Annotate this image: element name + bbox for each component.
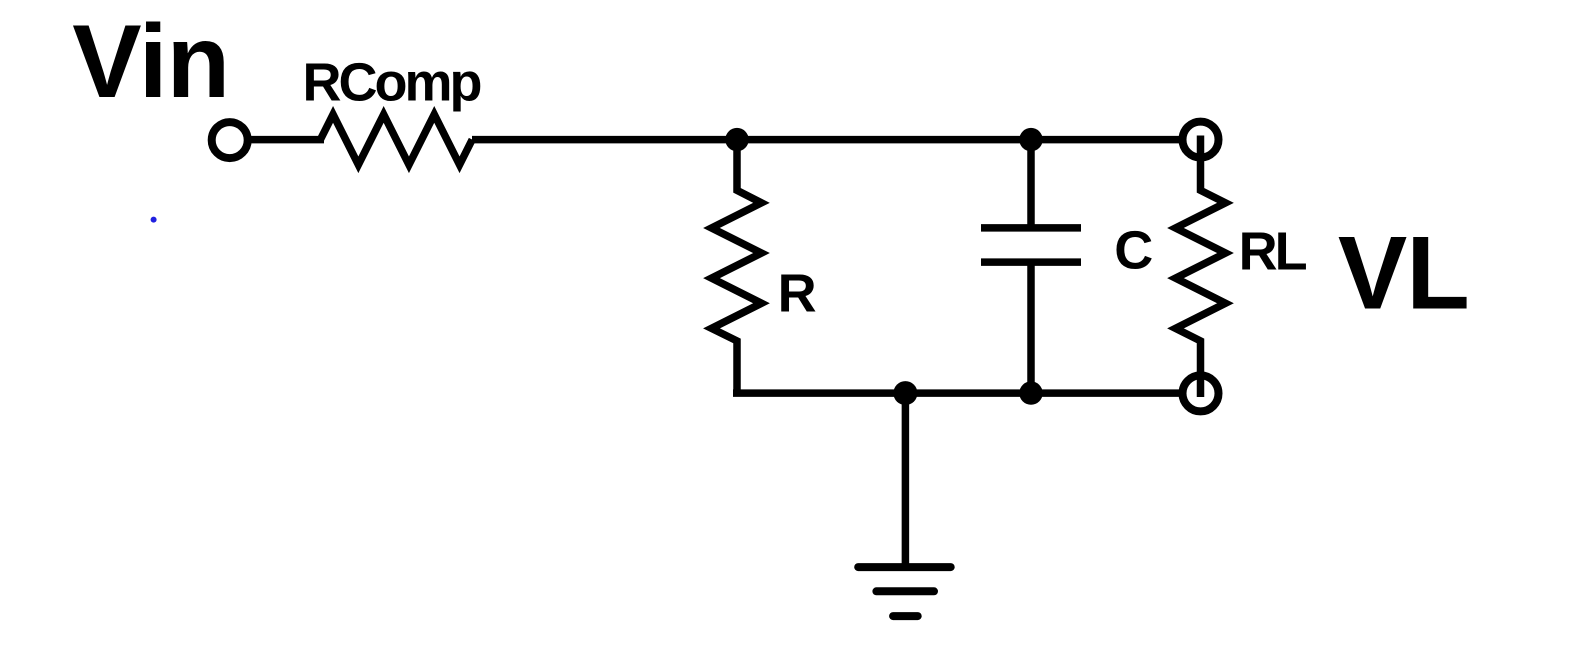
terminal (VL+ output port) [1183,122,1219,158]
terminal (Vin input port) [212,122,248,158]
resistor RL [1176,136,1226,398]
node A (junction top of R) [725,128,748,151]
ground bar 3 [893,612,918,620]
svg-text:RComp: RComp [303,53,481,113]
resistor RComp [320,114,472,164]
wire (bottom rail: R to ground node) [733,389,905,397]
stray blue dot [151,217,157,223]
svg-text:C: C [1114,221,1153,281]
wire (Vin terminal to RComp) [248,136,325,144]
svg-text:VL: VL [1338,215,1469,331]
terminal (VL- output port) [1183,375,1219,411]
svg-text:Vin: Vin [72,4,229,120]
node C-bottom junction [1019,381,1042,404]
wire (bottom rail: node C-bottom to VL- terminal) [1031,389,1186,397]
capacitor C bottom lead [1027,262,1035,393]
wire (RComp to node A) [472,136,737,144]
resistor R [712,140,762,393]
wire (bottom rail: ground node to node C-bottom) [905,389,1031,397]
ground bar 2 [876,587,934,595]
wire (node A to node B) [737,136,1031,144]
capacitor C top lead [1027,140,1035,228]
svg-text:RL: RL [1239,221,1307,281]
capacitor C top plate [981,224,1081,232]
wire (node B to VL+ terminal) [1031,136,1186,144]
capacitor C bottom plate [981,258,1081,266]
node B (junction top of C) [1019,128,1042,151]
node ground junction [893,381,917,405]
svg-text:R: R [778,264,817,324]
ground bar 1 [858,563,951,571]
wire (ground lead) [902,393,910,567]
